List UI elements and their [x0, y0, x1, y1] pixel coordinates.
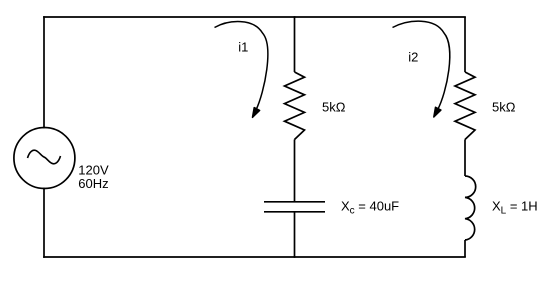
current arrow i2	[393, 21, 450, 117]
svg-text:i1: i1	[238, 40, 248, 55]
svg-text:XL = 1H: XL = 1H	[492, 199, 538, 217]
svg-text:5kΩ: 5kΩ	[492, 100, 516, 115]
svg-text:i2: i2	[408, 50, 418, 65]
wire right lower	[464, 240, 466, 257]
wire bottom-left segment	[44, 256, 295, 258]
svg-text:Xc = 40uF: Xc = 40uF	[341, 199, 399, 217]
resistor 5k ohm middle	[285, 72, 305, 140]
wire right upper	[464, 17, 466, 72]
wire left upper	[43, 17, 45, 128]
wire middle mid	[294, 140, 296, 202]
current arrow i1	[215, 22, 268, 118]
wire middle lower	[294, 212, 296, 257]
wire middle upper	[294, 17, 296, 72]
wire right mid	[464, 140, 466, 177]
wire left lower	[43, 189, 45, 258]
wire top-left segment	[44, 16, 295, 18]
svg-text:60Hz: 60Hz	[78, 176, 108, 191]
resistor 5k ohm right	[455, 72, 475, 140]
inductor XL	[465, 176, 476, 240]
AC source	[14, 128, 75, 189]
wire bottom-right segment	[295, 256, 466, 258]
wire top-right segment	[295, 16, 466, 18]
capacitor Xc	[264, 202, 325, 212]
svg-text:5kΩ: 5kΩ	[322, 100, 346, 115]
